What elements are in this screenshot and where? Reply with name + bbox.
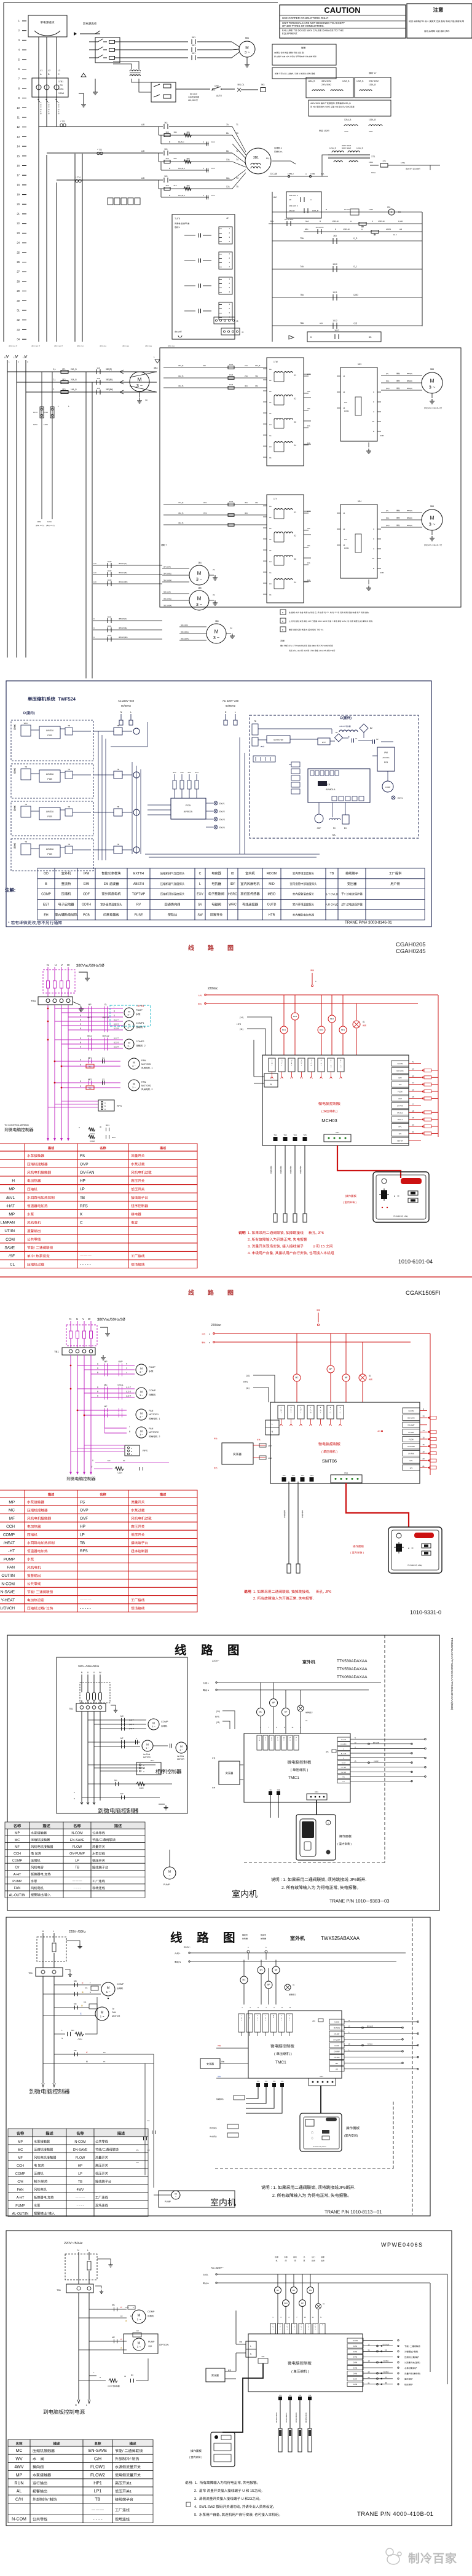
svg-text:C1: C1	[355, 737, 358, 740]
svg-text:OV-FAN: OV-FAN	[334, 2057, 340, 2059]
svg-text:MC: MC	[74, 2003, 77, 2005]
svg-text:(R): (R)	[386, 509, 388, 512]
svg-text:JP6: JP6	[326, 1751, 329, 1753]
svg-text:14: 14	[412, 1082, 414, 1084]
svg-text:TB1: TB1	[54, 1350, 59, 1353]
svg-text:20: 20	[368, 2376, 370, 2379]
svg-text:COMP2: COMP2	[136, 1040, 144, 1043]
svg-text:FS: FS	[80, 1500, 85, 1504]
svg-text:RV: RV	[333, 827, 336, 830]
svg-text:COM: COM	[6, 1238, 15, 1242]
svg-text:125A_B: 125A_B	[308, 80, 315, 82]
svg-text:LP: LP	[80, 1187, 85, 1192]
svg-text:TH3: TH3	[299, 2395, 302, 2397]
svg-text:380V 60HZ: 380V 60HZ	[321, 80, 331, 82]
svg-text:M: M	[430, 378, 434, 384]
svg-text:L3: L3	[23, 356, 25, 359]
svg-text:28: 28	[17, 280, 20, 283]
svg-text:CN1: CN1	[320, 2075, 323, 2078]
svg-text:10A: 10A	[173, 131, 176, 133]
svg-text:5B3: 5B3	[430, 368, 434, 371]
svg-text:T: T	[321, 1065, 322, 1066]
svg-text:OFF: OFF	[211, 89, 215, 92]
svg-text:T: T	[328, 1822, 329, 1824]
svg-text:MF2: MF2	[88, 1078, 92, 1081]
svg-text:B: B	[143, 1767, 144, 1770]
svg-text:Ha: Ha	[269, 505, 272, 508]
svg-text:C: C	[340, 1065, 342, 1066]
svg-text:D-IN8: D-IN8	[353, 2384, 358, 2386]
svg-text:OV-PMP: OV-PMP	[334, 2051, 340, 2053]
svg-text:50/60HZ: 50/60HZ	[121, 704, 132, 707]
svg-text:Xa: Xa	[269, 434, 272, 437]
svg-text:MF: MF	[15, 1845, 20, 1849]
svg-text:U: U	[355, 1746, 356, 1748]
svg-text:MP: MP	[104, 1361, 108, 1363]
svg-text:1: 1	[18, 20, 20, 23]
svg-text:N: N	[75, 2404, 77, 2406]
svg-text:B: B	[80, 1059, 81, 1061]
svg-text:B: B	[97, 1391, 98, 1393]
svg-text:B2: B2	[370, 727, 372, 729]
svg-text:1: 1	[301, 1065, 302, 1066]
svg-text:6A: 6A	[226, 150, 229, 152]
svg-text:23: 23	[17, 232, 20, 235]
svg-text:U: U	[331, 1067, 332, 1068]
svg-text:ODF: ODF	[83, 893, 90, 897]
svg-text:C/H: C/H	[94, 2457, 101, 2461]
svg-text:125A: 125A	[37, 520, 41, 523]
svg-text:C: C	[80, 1221, 83, 1225]
svg-text:N: N	[281, 2006, 283, 2009]
svg-text:21: 21	[368, 2382, 370, 2384]
svg-text:1B1: 1B1	[387, 206, 391, 208]
svg-text:24A: 24A	[307, 510, 310, 512]
svg-text:N: N	[47, 964, 49, 967]
svg-text:CN6: CN6	[239, 2341, 242, 2343]
svg-text:MOTOR2: MOTOR2	[141, 1085, 151, 1087]
svg-text:12: 12	[355, 1742, 356, 1744]
svg-text:-HAT: -HAT	[6, 1204, 15, 1208]
svg-text:3 ~: 3 ~	[140, 1370, 143, 1373]
svg-text:1R1: 1R1	[186, 157, 190, 160]
svg-text:A-HT: A-HT	[14, 1873, 22, 1877]
svg-text:OV-FAN: OV-FAN	[408, 1453, 414, 1455]
svg-text:B: B	[320, 220, 321, 222]
svg-text:MOTOR: MOTOR	[143, 1756, 151, 1759]
svg-text:10: 10	[17, 106, 20, 109]
svg-text:24A: 24A	[307, 373, 310, 375]
svg-text:5K1: 5K1	[192, 44, 195, 47]
svg-text:OUTD: OUTD	[267, 903, 277, 907]
svg-text:AC 220V~: AC 220V~	[211, 2266, 224, 2269]
svg-text:R: R	[130, 2315, 132, 2317]
svg-text:T: T	[289, 2020, 290, 2022]
svg-text:TTK530ADAXAA/TTK550ADAXAA/TTK0: TTK530ADAXAA/TTK550ADAXAA/TTK060ADAXAA(0…	[450, 1638, 454, 1711]
svg-text:C: C	[340, 1412, 341, 1413]
svg-text:PUMP: PUMP	[165, 2201, 171, 2203]
svg-text:PCB: PCB	[47, 734, 52, 737]
svg-text:TB: TB	[117, 843, 119, 846]
svg-text:B: B	[104, 1105, 106, 1107]
svg-text:CGAH0205: CGAH0205	[396, 941, 426, 948]
svg-text:FAN: FAN	[7, 1566, 15, 1570]
svg-text:COMP: COMP	[15, 2172, 26, 2176]
svg-text:D-IN1: D-IN1	[353, 2346, 358, 2347]
svg-text:1T1: 1T1	[371, 155, 375, 158]
svg-text:CAUTION: CAUTION	[324, 6, 360, 15]
svg-text:t: t	[129, 1426, 130, 1428]
svg-text:1: 1	[281, 1412, 282, 1413]
svg-text:30: 30	[123, 1459, 125, 1462]
svg-text:GND: GND	[380, 434, 385, 437]
svg-text:AC 220V~240: AC 220V~240	[222, 699, 239, 702]
svg-text:TB: TB	[117, 724, 119, 727]
svg-text:46A_B: 46A_B	[178, 522, 184, 524]
svg-text:D: D	[282, 629, 284, 631]
svg-text:室内环境温度探头: 室内环境温度探头	[293, 871, 315, 876]
svg-text:1K31: 1K31	[108, 625, 112, 627]
svg-text:R: R	[114, 1010, 116, 1013]
svg-text:B: B	[97, 1372, 98, 1374]
svg-text:A,C: A,C	[93, 571, 97, 574]
svg-text:TO CONTROL WIRING: TO CONTROL WIRING	[4, 1124, 29, 1126]
svg-text:Hd: Hd	[269, 423, 272, 426]
svg-text:B: B	[131, 1450, 132, 1453]
svg-text:1: 1	[229, 278, 230, 280]
svg-text:- - - - -: - - - - -	[80, 1263, 91, 1267]
svg-text:TH4: TH4	[281, 2081, 284, 2083]
svg-text:MOTOR1: MOTOR1	[141, 1063, 151, 1066]
svg-text:MC1: MC1	[282, 1029, 286, 1031]
svg-text:68C: 68C	[305, 228, 309, 230]
svg-text:L: L	[272, 1423, 273, 1426]
svg-text:除: 除	[276, 2412, 278, 2414]
svg-text:RFS: RFS	[143, 1449, 147, 1452]
svg-text:3B5,15(BL): 3B5,15(BL)	[181, 631, 189, 634]
svg-text:L: L	[199, 882, 201, 886]
svg-text:5K1-OL: 5K1-OL	[238, 84, 245, 86]
svg-text:MF2: MF2	[330, 1018, 334, 1020]
svg-text:4: 4	[229, 240, 230, 243]
svg-text:(G): (G)	[230, 627, 232, 629]
svg-text:- - - -: - - - -	[77, 2204, 84, 2208]
svg-text:2X852: 2X852	[386, 228, 391, 230]
svg-text:TRANE P/N 4000-410B-01: TRANE P/N 4000-410B-01	[357, 2511, 434, 2518]
svg-text:TMC1: TMC1	[288, 1776, 299, 1780]
svg-text:室内辅助电加热: 室内辅助电加热	[55, 912, 77, 917]
svg-text:头: 头	[284, 1516, 286, 1518]
svg-text:WV: WV	[293, 2289, 296, 2291]
svg-text:FLOW: FLOW	[374, 1761, 379, 1762]
svg-text:N: N	[284, 1726, 285, 1729]
svg-text:18: 18	[412, 1110, 414, 1112]
svg-text:18: 18	[368, 2360, 370, 2362]
svg-text:AVM02A: AVM02A	[46, 848, 54, 850]
svg-text:3B5,14(BK): 3B5,14(BK)	[163, 605, 172, 607]
svg-text:H2: H2	[269, 516, 272, 519]
svg-text:A: A	[281, 2015, 282, 2017]
svg-text:H: H	[320, 1411, 321, 1412]
svg-text:WRC: WRC	[229, 903, 237, 907]
svg-text:3 ~: 3 ~	[132, 1086, 136, 1089]
svg-text:FS: FS	[80, 1154, 85, 1158]
svg-text:过T 过电流保护器: 过T 过电流保护器	[341, 903, 363, 907]
svg-text:M: M	[128, 1042, 130, 1045]
svg-text:Hb: Hb	[269, 390, 272, 393]
svg-text:23A: 23A	[245, 375, 248, 377]
svg-text:B: B	[129, 1431, 130, 1433]
svg-text:X4: X4	[269, 457, 272, 459]
svg-text:1F23: 1F23	[229, 383, 234, 386]
svg-text:136A_B: 136A_B	[312, 210, 318, 212]
svg-text:L: L	[87, 2249, 88, 2252]
svg-text:R: R	[48, 112, 50, 115]
svg-text:1F13: 1F13	[33, 411, 37, 414]
svg-text:TB: TB	[330, 872, 334, 876]
svg-text:CGAH0245: CGAH0245	[396, 948, 426, 955]
svg-text:1K31: 1K31	[108, 634, 112, 637]
svg-text:6: 6	[308, 2330, 309, 2331]
svg-text:MC2: MC2	[112, 1136, 116, 1139]
svg-text:OV-HAT: OV-HAT	[334, 2033, 340, 2035]
svg-text:T: T	[291, 1065, 293, 1066]
svg-text:O: O	[272, 1062, 273, 1063]
svg-text:H4: H4	[269, 446, 272, 448]
svg-text:W: W	[300, 1409, 302, 1410]
svg-text:V: V	[249, 2019, 250, 2020]
svg-text:PUMP: PUMP	[136, 1009, 143, 1011]
svg-text:N-COM: N-COM	[71, 1832, 83, 1836]
svg-text:(BL): (BL)	[386, 380, 389, 382]
svg-text:L: L	[58, 405, 59, 407]
svg-text:HP1: HP1	[398, 1126, 402, 1128]
svg-text:33: 33	[17, 328, 20, 331]
svg-text:头: 头	[290, 1172, 292, 1174]
svg-text:L: L	[130, 711, 132, 713]
svg-text:B: B	[97, 1363, 98, 1365]
svg-text:FAN: FAN	[17, 2188, 24, 2192]
svg-text:HP2: HP2	[398, 1077, 402, 1079]
svg-text:IDF: IDF	[230, 882, 235, 886]
svg-text:11: 11	[312, 2316, 314, 2319]
svg-text:(L2) S: (L2) S	[129, 1723, 134, 1726]
svg-text:智能功率模块: 智能功率模块	[101, 871, 121, 876]
svg-text:TB1: TB1	[69, 1708, 73, 1710]
svg-text:TH4: TH4	[293, 1134, 297, 1136]
svg-text:75A: 75A	[300, 294, 304, 296]
svg-text:C,L: C,L	[53, 379, 56, 381]
svg-text:V: V	[301, 1064, 302, 1065]
svg-text:1K6: 1K6	[165, 157, 169, 160]
svg-text:M: M	[197, 596, 202, 602]
svg-text:L: L	[270, 1077, 272, 1079]
svg-text:M: M	[133, 1083, 135, 1086]
svg-text:O: O	[277, 1740, 278, 1742]
svg-text:A: A	[340, 1059, 342, 1061]
svg-text:1 ~: 1 ~	[136, 2318, 141, 2322]
svg-text:47A_B: 47A_B	[178, 501, 184, 504]
svg-text:SA: SA	[332, 833, 336, 836]
svg-text:1TB1: 1TB1	[58, 80, 63, 83]
svg-text:/HEAT: /HEAT	[4, 1541, 15, 1545]
svg-text:1T22: 1T22	[203, 512, 207, 514]
svg-text:1SW1: 1SW1	[58, 92, 64, 95]
svg-text:Q,BD: Q,BD	[353, 294, 358, 296]
svg-text:DV-CL2: DV-CL2	[397, 1112, 403, 1114]
svg-text:74A: 74A	[300, 265, 304, 268]
svg-text:4: 4	[301, 1060, 302, 1061]
svg-text:* TT2: * TT2	[97, 149, 102, 151]
svg-text:L: L	[330, 1409, 331, 1410]
svg-text:压缩机排气温度探头: 压缩机排气温度探头	[160, 871, 185, 876]
svg-text:整流桥: 整流桥	[61, 881, 71, 886]
svg-text:EMI FILTER: EMI FILTER	[273, 739, 283, 741]
svg-text:C: C	[93, 636, 95, 638]
svg-text:MF: MF	[285, 1711, 288, 1713]
svg-text:EXV2: EXV2	[219, 811, 225, 813]
svg-text:21: 21	[17, 213, 20, 216]
svg-text:AL: AL	[369, 1375, 371, 1377]
svg-text:EXV1: EXV1	[219, 803, 225, 805]
svg-text:4: 4	[288, 2316, 289, 2319]
svg-text:N: N	[322, 2325, 323, 2326]
svg-text:7A: 7A	[226, 124, 229, 126]
svg-text:AR: AR	[399, 228, 403, 230]
svg-text:N-COM: N-COM	[74, 2140, 86, 2144]
svg-text:24: 24	[17, 241, 20, 245]
svg-text:3 ~: 3 ~	[127, 1045, 130, 1047]
svg-text:Y-HEAT: Y-HEAT	[1, 1598, 15, 1603]
svg-text:18: 18	[17, 183, 20, 186]
svg-text:5B3(R): 5B3(R)	[407, 372, 412, 375]
svg-text:P: P	[265, 2020, 266, 2022]
svg-text:M: M	[259, 1740, 260, 1742]
svg-text:R: R	[40, 112, 42, 115]
svg-text:EN-SAVE: EN-SAVE	[407, 1417, 414, 1420]
svg-text:45A_B: 45A_B	[178, 512, 184, 514]
svg-text:H: H	[291, 1060, 293, 1061]
svg-text:ON9: ON9	[214, 85, 219, 87]
svg-text:ID: ID	[231, 872, 234, 876]
svg-text:MC: MC	[243, 1979, 246, 1981]
svg-text:126A_B: 126A_B	[356, 147, 363, 149]
svg-text:B: B	[373, 567, 374, 570]
svg-text:AL: AL	[293, 1984, 295, 1986]
svg-text:M: M	[214, 629, 219, 635]
svg-text:OV-TMP: OV-TMP	[341, 1767, 347, 1769]
svg-text:10A: 10A	[226, 159, 230, 161]
svg-text:C: C	[272, 1060, 273, 1061]
svg-text:(BK): (BK)	[386, 387, 390, 390]
svg-text:8A,B,C: 8A,B,C	[178, 141, 184, 143]
svg-text:3 ~: 3 ~	[140, 1433, 143, 1436]
svg-text:MP: MP	[88, 1003, 92, 1006]
svg-text:3B4,14(BK): 3B4,14(BK)	[119, 581, 128, 583]
svg-text:3B5,14(BL): 3B5,14(BL)	[163, 598, 171, 600]
svg-text:S: S	[126, 1367, 127, 1370]
svg-text:25: 25	[17, 251, 20, 254]
svg-text:LP: LP	[75, 1859, 79, 1863]
svg-text:2: 2	[18, 29, 20, 32]
svg-text:B: B	[80, 1027, 81, 1030]
svg-text:TB2: TB2	[88, 1087, 92, 1090]
svg-text:L1: L1	[343, 375, 345, 377]
svg-text:TRANE P/N# 3003-8146-01: TRANE P/N# 3003-8146-01	[345, 921, 392, 925]
svg-text:3B5,15(R): 3B5,15(R)	[181, 624, 188, 627]
svg-text:MC: MC	[259, 1711, 263, 1713]
svg-text:LP1: LP1	[399, 1133, 402, 1135]
svg-text:室: 室	[14, 805, 16, 808]
svg-text:1K8: 1K8	[96, 377, 100, 380]
svg-text:C: C	[136, 1737, 137, 1740]
svg-text:4WV: 4WV	[14, 2465, 24, 2470]
svg-text:MF: MF	[18, 2156, 23, 2160]
svg-text:B: B	[310, 336, 312, 339]
svg-text:MC: MC	[114, 1779, 117, 1781]
svg-text:11: 11	[289, 2006, 291, 2009]
svg-text:N: N	[272, 1431, 273, 1433]
svg-text:X1: X1	[294, 374, 296, 377]
svg-text:印刷电路板: 印刷电路板	[103, 912, 120, 917]
svg-text:N: N	[42, 1930, 44, 1933]
svg-text:MN: MN	[309, 2289, 312, 2291]
svg-text:(L3) R: (L3) R	[126, 1395, 132, 1397]
svg-text:B: B	[169, 141, 170, 143]
svg-text:6: 6	[315, 980, 317, 983]
svg-text:FAN: FAN	[141, 1081, 146, 1083]
svg-text:AVM02A: AVM02A	[46, 773, 54, 776]
svg-text:3 ~: 3 ~	[140, 1415, 143, 1418]
svg-text:RFS: RFS	[80, 1549, 88, 1553]
svg-text:MP: MP	[301, 2302, 304, 2304]
svg-text:FLOW: FLOW	[409, 1438, 414, 1440]
svg-text:220V~/50Hz: 220V~/50Hz	[64, 2242, 83, 2245]
svg-text:TH3: TH3	[301, 1474, 304, 1477]
svg-text:L2: L2	[48, 69, 50, 72]
svg-text:O: O	[331, 1065, 332, 1066]
svg-text:PUMP: PUMP	[15, 2204, 25, 2208]
svg-text:N: N	[348, 2019, 350, 2022]
svg-text:AUTO: AUTO	[216, 95, 222, 97]
svg-text:B: B	[97, 1395, 98, 1397]
svg-text:FLOW1: FLOW1	[90, 2465, 105, 2470]
svg-text:O: O	[310, 1411, 312, 1412]
svg-text:B: B	[80, 1019, 81, 1021]
svg-text:3: 3	[248, 1946, 249, 1949]
svg-text:220Vac: 220Vac	[211, 1324, 221, 1327]
svg-text:1K2: 1K2	[211, 194, 215, 197]
svg-text:N-SAVE: N-SAVE	[1, 1590, 15, 1595]
svg-text:8: 8	[258, 2006, 259, 2009]
svg-text:HP1: HP1	[342, 1777, 345, 1778]
svg-text:CH-TMP: CH-TMP	[341, 1772, 347, 1773]
svg-text:L: L	[340, 1062, 342, 1063]
svg-text:Pb Switch Mfg & Save: Pb Switch Mfg & Save	[313, 2146, 326, 2148]
svg-text:HP: HP	[80, 1179, 85, 1184]
svg-text:L2: L2	[343, 528, 345, 530]
svg-text:PWM: PWM	[344, 547, 349, 549]
svg-text:N: N	[81, 1671, 83, 1674]
svg-text:L: L	[310, 1409, 312, 1410]
svg-text:M: M	[197, 571, 202, 576]
svg-text:CN1: CN1	[336, 1131, 339, 1134]
svg-text:D,AR: D,AR	[398, 220, 403, 222]
svg-text:9: 9	[18, 96, 20, 100]
svg-text:(L1) T: (L1) T	[114, 1037, 119, 1040]
svg-text:T5: T5	[236, 186, 238, 188]
svg-text:(11): (11)	[216, 1721, 219, 1724]
